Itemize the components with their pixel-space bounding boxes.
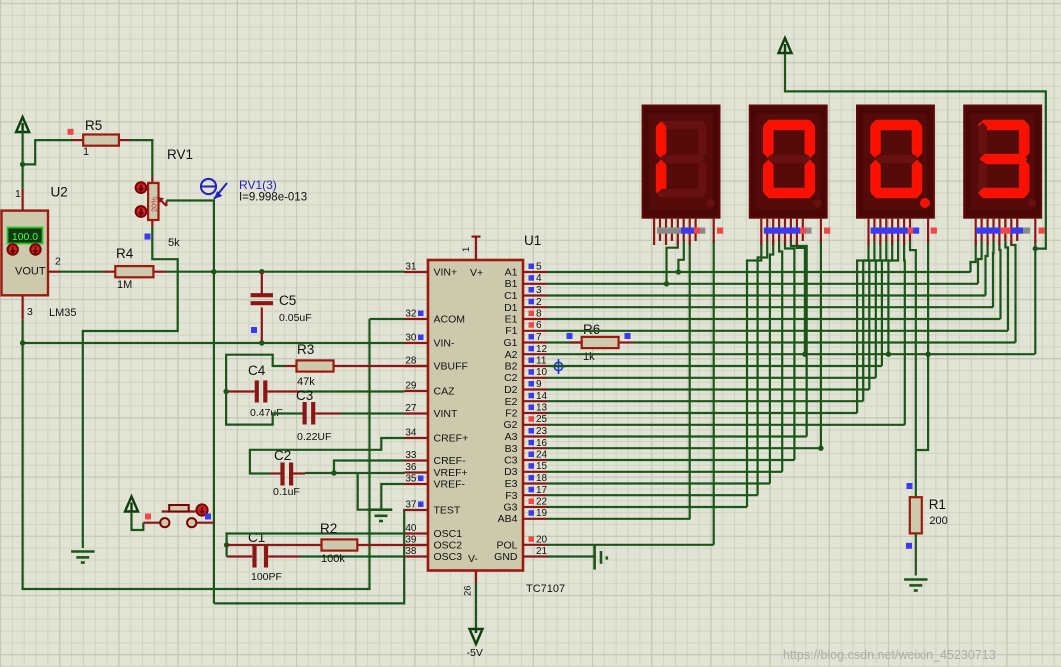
pin V+ (1) stub: [475, 237, 477, 260]
state square R1 top: [907, 483, 913, 489]
wire OSC1 pin40: [227, 534, 405, 557]
svg-text:B1: B1: [505, 278, 518, 290]
svg-text:24: 24: [536, 450, 548, 461]
capacitor C5: [251, 272, 273, 343]
wire POL pin20: [547, 544, 714, 546]
display pin state indicators: [657, 228, 1045, 234]
wire R3 left to C4 node: [226, 355, 285, 392]
wire VREF- pin35 to ground: [381, 484, 404, 510]
state square R5: [68, 129, 74, 135]
state square RV1: [145, 234, 151, 240]
svg-text:33: 33: [405, 450, 417, 461]
svg-text:V+: V+: [470, 267, 483, 279]
svg-text:TEST: TEST: [434, 505, 461, 517]
wire display3 anode drop: [916, 240, 928, 450]
wire RV1 wiper to TEST riser: [167, 201, 214, 604]
wire +V rail to display4 anode: [785, 54, 1046, 249]
resistor R3: [285, 360, 428, 371]
svg-text:11: 11: [536, 356, 547, 367]
svg-text:C1: C1: [248, 530, 265, 545]
svg-text:V-: V-: [468, 553, 478, 565]
power terminal -5V: [470, 629, 483, 644]
junction dot R2 left: [224, 542, 229, 547]
svg-text:10: 10: [536, 367, 548, 378]
wire display1 CA to POL row: [713, 240, 715, 545]
wire display2 anode drop: [820, 240, 822, 448]
svg-text:OSC3: OSC3: [434, 551, 463, 563]
wire V- to -5V arrow: [475, 583, 477, 628]
svg-text:VIN+: VIN+: [434, 267, 458, 279]
ground symbol (VREF): [369, 508, 392, 511]
svg-text:https://blog.csdn.net/weixin_4: https://blog.csdn.net/weixin_45230713: [783, 648, 996, 662]
svg-text:U1: U1: [524, 233, 541, 248]
pin V- (26) stub: [475, 571, 477, 584]
svg-text:100PF: 100PF: [251, 571, 282, 583]
svg-text:0.22UF: 0.22UF: [297, 431, 331, 443]
svg-text:E2: E2: [505, 396, 518, 408]
svg-text:R4: R4: [116, 246, 134, 261]
svg-text:21: 21: [536, 546, 548, 557]
svg-text:TC7107: TC7107: [526, 583, 565, 595]
svg-text:RV1(3): RV1(3): [239, 178, 277, 192]
svg-text:34: 34: [405, 428, 417, 439]
svg-text:100k: 100k: [321, 553, 345, 565]
svg-text:20: 20: [536, 534, 548, 545]
svg-text:9: 9: [536, 379, 542, 390]
svg-text:16: 16: [536, 438, 548, 449]
junction dot C4 left: [223, 389, 228, 394]
svg-text:D3: D3: [504, 466, 518, 478]
svg-text:A1: A1: [505, 267, 518, 279]
ground symbol (RV1 path): [71, 550, 94, 553]
wire display3 segment risers: [857, 240, 905, 425]
svg-text:39: 39: [405, 535, 417, 546]
svg-text:VIN-: VIN-: [434, 338, 456, 350]
svg-text:U2: U2: [51, 185, 68, 200]
svg-text:POL: POL: [496, 539, 517, 551]
junction dot A1/d1F: [676, 269, 681, 274]
wire display1 F to A1 row: [678, 240, 683, 272]
junction dot B1/d1E: [664, 281, 669, 286]
junction dot wiper/VIN+: [211, 269, 216, 274]
svg-text:B3: B3: [505, 443, 518, 455]
junction dot +V branch: [20, 162, 25, 167]
svg-text:22: 22: [536, 497, 548, 508]
svg-text:100.0: 100.0: [12, 231, 38, 243]
svg-text:VREF-: VREF-: [434, 479, 466, 491]
resistor R2: [227, 539, 428, 550]
ground symbol (R1): [904, 578, 927, 581]
svg-text:OSC2: OSC2: [434, 540, 463, 552]
sensor U2 LM35: [2, 189, 61, 320]
svg-text:26: 26: [463, 585, 474, 596]
svg-text:200: 200: [929, 515, 947, 527]
svg-text:5: 5: [536, 262, 542, 273]
state square R6 left: [567, 333, 573, 339]
svg-text:13: 13: [536, 403, 548, 414]
svg-text:C3: C3: [296, 388, 313, 403]
7-segment display 2 (digit 0): [750, 106, 827, 246]
power terminal +V (left): [16, 117, 29, 133]
svg-text:23: 23: [536, 426, 548, 437]
wire CREF- branch: [334, 461, 405, 474]
svg-text:LM35: LM35: [49, 307, 77, 319]
wire display4 anode drop: [1034, 240, 1036, 354]
svg-text:3: 3: [536, 285, 542, 296]
svg-text:2: 2: [536, 297, 542, 308]
svg-text:32: 32: [405, 309, 417, 320]
svg-text:1: 1: [83, 146, 89, 158]
junction dot VIN-/U2gnd: [20, 340, 25, 345]
state square R1 bottom: [906, 543, 912, 549]
svg-text:17: 17: [536, 485, 548, 496]
svg-text:CREF+: CREF+: [434, 433, 469, 445]
svg-text:R2: R2: [320, 521, 337, 536]
svg-text:1k: 1k: [583, 351, 595, 363]
svg-text:7: 7: [536, 332, 542, 343]
svg-text:F2: F2: [505, 408, 517, 420]
push button: [125, 497, 214, 531]
svg-text:G1: G1: [503, 337, 517, 349]
svg-text:VINT: VINT: [434, 408, 459, 420]
junction dot anode/d3CA: [925, 352, 930, 357]
7-segment display 3 (digit 0 with dp): [857, 106, 934, 246]
wire display1 G to AB4 row: [689, 240, 691, 519]
junction dot C5 bottom: [259, 340, 264, 345]
svg-text:CAZ: CAZ: [434, 386, 456, 398]
svg-text:D2: D2: [504, 384, 518, 396]
svg-text:47k: 47k: [297, 376, 315, 388]
svg-text:AB4: AB4: [498, 513, 518, 525]
svg-text:C2: C2: [504, 372, 518, 384]
svg-text:I=9.998e-013: I=9.998e-013: [239, 192, 307, 204]
svg-text:R6: R6: [583, 322, 600, 337]
svg-text:B2: B2: [505, 361, 518, 373]
svg-text:C3: C3: [504, 455, 518, 467]
svg-text:25: 25: [536, 414, 548, 425]
cursor origin marker: [551, 359, 566, 374]
wire TEST pin37 riser: [214, 510, 405, 603]
svg-text:1: 1: [15, 188, 21, 200]
svg-text:CREF-: CREF-: [434, 455, 467, 467]
svg-text:R5: R5: [85, 118, 102, 133]
svg-text:38: 38: [405, 546, 417, 557]
svg-text:E1: E1: [505, 314, 518, 326]
ground symbol (GND pin, rotated): [593, 545, 596, 570]
svg-text:0.05uF: 0.05uF: [279, 312, 312, 324]
resistor R1: [910, 497, 922, 575]
resistor R6: [547, 337, 633, 348]
wire display2 segment risers: [747, 240, 807, 507]
wire R4 to VIN+ pin31: [166, 271, 405, 273]
wire display4 segment risers: [971, 240, 1016, 343]
wire U2 pin3 to analog ground rail: [23, 319, 370, 589]
svg-text:C1: C1: [504, 290, 518, 302]
state square button right: [205, 514, 211, 520]
svg-text:36: 36: [405, 462, 417, 473]
svg-text:A3: A3: [505, 431, 518, 443]
wire GND pin21: [547, 555, 595, 557]
capacitor C2: [270, 463, 305, 486]
svg-text:R3: R3: [297, 342, 314, 357]
svg-text:14: 14: [536, 391, 548, 402]
svg-text:30: 30: [405, 333, 417, 344]
resistor R4: [60, 266, 166, 277]
junction dot C5 top: [259, 269, 264, 274]
svg-text:VOUT: VOUT: [15, 266, 46, 278]
svg-text:R1: R1: [929, 497, 946, 512]
svg-text:5k: 5k: [168, 237, 180, 249]
junction dot CREF- branch: [331, 470, 336, 475]
wire VIN- net pin30: [23, 342, 405, 344]
junction dot anode/d2G: [802, 352, 807, 357]
wire matrix rows from U1 to display risers: [547, 272, 1035, 519]
svg-text:GND: GND: [494, 551, 518, 563]
resistor R5: [72, 135, 130, 146]
junction dot power/d4CA: [1033, 246, 1038, 251]
wire RV1 bottom to ground path: [83, 227, 178, 548]
wire OSC3 pin38: [300, 555, 405, 557]
power terminal +V (top): [779, 38, 792, 54]
svg-text:28: 28: [405, 356, 417, 367]
state square button left: [145, 514, 151, 520]
svg-text:2: 2: [55, 256, 61, 268]
svg-text:ACOM: ACOM: [434, 314, 466, 326]
svg-text:1M: 1M: [117, 279, 132, 291]
svg-text:VBUFF: VBUFF: [434, 361, 468, 373]
svg-text:8: 8: [536, 309, 542, 320]
wire display1 E to B1 row: [667, 240, 678, 284]
svg-text:A2: A2: [505, 349, 518, 361]
svg-text:E3: E3: [505, 478, 518, 490]
state square C5: [251, 327, 257, 333]
capacitor C1: [227, 546, 300, 568]
svg-text:35: 35: [405, 474, 417, 485]
svg-text:1: 1: [461, 247, 472, 252]
svg-text:D1: D1: [504, 302, 518, 314]
junction dot anode/d3F: [886, 352, 891, 357]
7-segment display 4 (digit 3): [964, 106, 1041, 246]
svg-text:OSC1: OSC1: [434, 528, 463, 540]
svg-text:40: 40: [405, 523, 417, 534]
svg-text:G3: G3: [503, 502, 517, 514]
wire VREF+ ground bar link: [358, 473, 369, 510]
wire CREF+ pin34 to C2 left: [250, 438, 405, 474]
svg-text:-5V: -5V: [467, 647, 483, 659]
7-segment display 1 (digit 1): [643, 106, 720, 246]
svg-text:15: 15: [536, 461, 548, 472]
junction dot B3/d2CA: [818, 446, 823, 451]
capacitor C3: [305, 402, 340, 425]
svg-text:C5: C5: [279, 293, 296, 308]
svg-text:18: 18: [536, 473, 548, 484]
svg-text:37: 37: [405, 500, 417, 511]
wire VINT pin27: [340, 412, 405, 414]
svg-text:3: 3: [27, 306, 33, 318]
svg-text:4: 4: [536, 273, 542, 284]
potentiometer RV1: [136, 177, 167, 227]
wire display3 DP to R1: [910, 240, 916, 497]
svg-text:C2: C2: [274, 448, 291, 463]
svg-text:F3: F3: [505, 490, 517, 502]
svg-text:19: 19: [536, 508, 548, 519]
svg-text:6: 6: [536, 320, 542, 331]
svg-text:C4: C4: [248, 363, 266, 378]
wire R5 to RV1 top: [130, 140, 152, 177]
state square R6 right: [625, 333, 631, 339]
svg-text:29: 29: [405, 381, 417, 392]
wire C4 node to C3 left: [226, 392, 305, 425]
svg-text:12: 12: [536, 344, 548, 355]
svg-text:RV1: RV1: [167, 147, 193, 162]
svg-text:0.1uF: 0.1uF: [273, 486, 300, 498]
svg-text:31: 31: [405, 262, 417, 273]
current probe RV1(3): [201, 179, 227, 199]
wire CAZ pin29: [300, 390, 405, 392]
svg-text:27: 27: [405, 403, 417, 414]
wire +V to U2 pin1 and R5 branch: [22, 131, 24, 189]
svg-text:20%: 20%: [150, 197, 159, 212]
wire C2 right to VREF+ pin36: [305, 472, 405, 474]
op-amp U1 TC7107 chip body and pins: [405, 260, 548, 571]
svg-text:F1: F1: [505, 325, 517, 337]
svg-text:G2: G2: [503, 419, 517, 431]
capacitor C4: [226, 380, 300, 402]
svg-text:VREF+: VREF+: [434, 467, 468, 479]
wire ACOM pin32: [370, 318, 405, 320]
